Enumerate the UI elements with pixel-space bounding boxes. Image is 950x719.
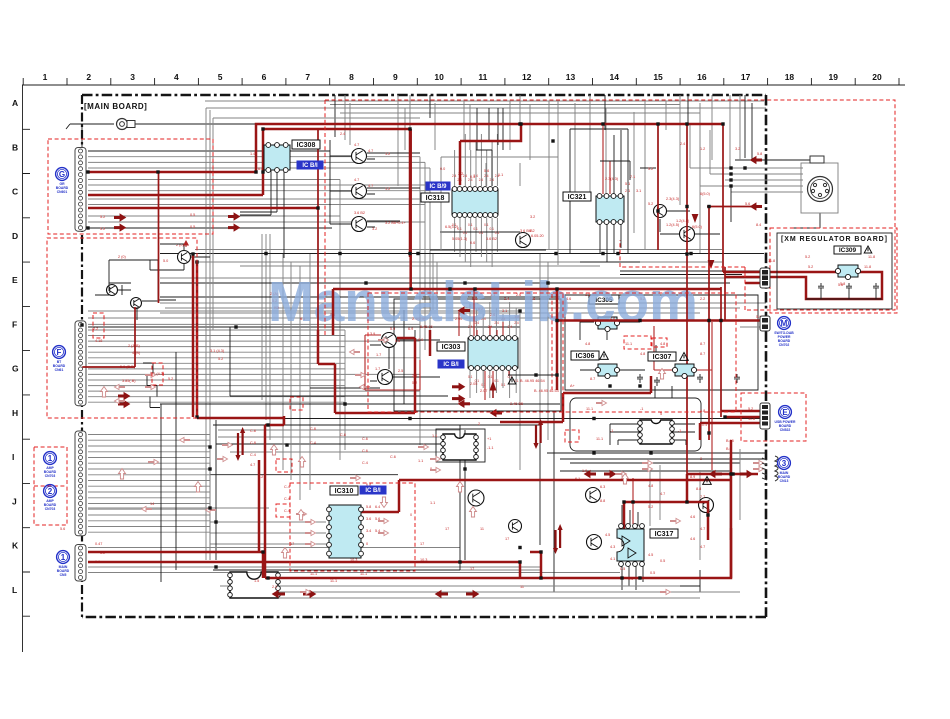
op-amp IC308 [264, 143, 290, 173]
IC321 [596, 194, 624, 225]
svg-text:J: J [12, 496, 17, 506]
svg-text:5.8: 5.8 [366, 505, 371, 509]
white DIP IC312 [638, 420, 675, 444]
svg-text:2.4: 2.4 [479, 178, 484, 182]
wire: top verticals black [335, 95, 752, 160]
svg-text:IC317: IC317 [655, 531, 674, 538]
svg-text:3: 3 [782, 459, 787, 468]
svg-text:IC308: IC308 [297, 142, 316, 149]
svg-text:1.4: 1.4 [250, 152, 255, 156]
white DIP IC313 [228, 572, 281, 598]
IC310 [327, 505, 364, 558]
svg-text:2.2: 2.2 [272, 585, 277, 589]
svg-text:3.6 B2: 3.6 B2 [354, 211, 365, 215]
red dark arrows vertical pair [235, 427, 245, 461]
svg-text:5: 5 [660, 412, 662, 416]
IC306 regulator [595, 364, 619, 379]
wire: top verticals dropping from border [345, 95, 740, 205]
wire: top inner horizontal bus [205, 101, 766, 113]
svg-text:2.4: 2.4 [680, 142, 685, 146]
grid ruler column ticks [23, 78, 899, 85]
wire: IC306 IC307 caps [637, 374, 643, 383]
svg-text:2: 2 [86, 72, 91, 82]
svg-text:16: 16 [697, 72, 707, 82]
red circuit G arrows right [228, 213, 240, 220]
svg-text:7: 7 [305, 72, 310, 82]
connector CN604 bottom strip [75, 545, 86, 582]
svg-text:5.8: 5.8 [840, 282, 845, 286]
IC317 label [650, 529, 678, 538]
connector G circled ref [56, 168, 69, 194]
svg-text:17: 17 [505, 537, 509, 541]
svg-text:2.4: 2.4 [473, 174, 478, 178]
svg-text:1.2(4.5): 1.2(4.5) [666, 223, 680, 227]
IC308 label [292, 140, 320, 149]
svg-text:2.4: 2.4 [489, 178, 494, 182]
svg-text:5.6: 5.6 [484, 169, 489, 173]
wire: long column-4 verticals [206, 108, 430, 560]
circled ref 1 amp board [44, 452, 57, 478]
svg-text:1: 1 [48, 454, 53, 463]
svg-text:B. 46.95 46.54: B. 46.95 46.54 [520, 379, 545, 383]
svg-text:B. 46.95 46.54: B. 46.95 46.54 [534, 389, 559, 393]
svg-text:5.2: 5.2 [808, 265, 813, 269]
circled ref 1 main board [57, 551, 70, 577]
power wire red: connector3 feed [687, 473, 758, 476]
svg-text:0.1: 0.1 [494, 379, 499, 383]
IC317 [617, 529, 644, 561]
wire: mid horizontal bus black [88, 254, 766, 328]
svg-text:5.2: 5.2 [648, 167, 653, 171]
svg-text:1.7: 1.7 [375, 367, 380, 371]
svg-text:5.0: 5.0 [163, 259, 168, 263]
IC318 label [421, 193, 449, 202]
svg-text:5.2: 5.2 [648, 202, 653, 206]
white DIP IC311 box [436, 429, 485, 462]
transistor Q316 [680, 227, 695, 242]
red thin vertical to IC303 [459, 289, 509, 400]
board outline dashed: G board [48, 139, 213, 234]
svg-text:4.6: 4.6 [690, 515, 695, 519]
svg-text:11: 11 [480, 527, 484, 531]
svg-text:2.4: 2.4 [340, 132, 345, 136]
red down arrows right column [692, 214, 715, 269]
svg-text:G: G [59, 170, 65, 179]
transistor Q310 [382, 333, 397, 348]
svg-text:1.2: 1.2 [700, 147, 705, 151]
power wire red: G third feed [88, 207, 318, 210]
svg-text:F: F [57, 348, 62, 357]
power wire red: IC310 area feed [197, 416, 731, 552]
IC307 label [648, 352, 676, 361]
svg-text:11.1: 11.1 [330, 579, 337, 583]
power wire red: G bus drop to F circuit [82, 172, 158, 367]
svg-text:11: 11 [520, 585, 524, 589]
svg-text:K: K [12, 541, 19, 551]
svg-text:2.4: 2.4 [452, 174, 457, 178]
transistor Q321 [178, 251, 191, 264]
red feed to IC317 pin [632, 478, 634, 524]
wire: IC308 pin wires [240, 170, 284, 258]
svg-text:C.4: C.4 [362, 461, 368, 465]
svg-text:1: 1 [61, 553, 66, 562]
svg-text:C.4: C.4 [250, 453, 256, 457]
svg-text:4.8: 4.8 [640, 352, 645, 356]
red dark vertical arrow pair near IC317 [553, 524, 563, 554]
svg-text:5.2: 5.2 [805, 255, 810, 259]
svg-text:0.6: 0.6 [470, 241, 475, 245]
svg-text:5.2: 5.2 [648, 505, 653, 509]
svg-text:-1: -1 [678, 429, 681, 433]
svg-text:CN13: CN13 [780, 479, 789, 483]
svg-text:IC318: IC318 [426, 195, 445, 202]
svg-text:0: 0 [410, 513, 412, 517]
transistor Q332 [587, 535, 602, 550]
transistor Q304 [516, 233, 531, 248]
connector M 2pin [760, 316, 770, 331]
svg-text:15: 15 [653, 72, 663, 82]
wire: XM area verticals [690, 95, 740, 186]
connector 3 circled ref [778, 457, 791, 483]
svg-text:+1: +1 [487, 437, 491, 441]
power wire red: around transistor block Q312 [318, 330, 430, 413]
svg-text:11: 11 [478, 72, 487, 82]
svg-text:4.7: 4.7 [354, 178, 359, 182]
board outline dashed: AMP board labels [34, 447, 67, 525]
svg-text:5.6: 5.6 [395, 339, 400, 343]
svg-text:[MAIN BOARD]: [MAIN BOARD] [84, 102, 147, 111]
svg-text:3.1: 3.1 [636, 189, 641, 193]
red circuit arrows F board [114, 214, 126, 221]
svg-text:4.8: 4.8 [660, 342, 665, 346]
fuse F601 [117, 119, 136, 130]
svg-text:3.2: 3.2 [735, 147, 740, 151]
svg-text:0.1: 0.1 [479, 231, 484, 235]
circled ref 2 amp board [44, 485, 57, 511]
svg-text:CN5: CN5 [60, 573, 67, 577]
svg-text:4.7: 4.7 [660, 492, 665, 496]
wire: IC321 feed stub [600, 161, 630, 180]
svg-text:2.5: 2.5 [398, 369, 403, 373]
svg-text:1: 1 [43, 72, 48, 82]
svg-text:C.8: C.8 [310, 427, 316, 431]
board outline dashed: center box [368, 293, 736, 412]
wire: mid horizontal bus across board [88, 250, 766, 319]
svg-text:4.8: 4.8 [648, 484, 653, 488]
svg-text:IC309: IC309 [839, 247, 857, 254]
wire bundle from connector G black lines [88, 140, 332, 228]
svg-text:8.9: 8.9 [690, 475, 695, 479]
wire: right top gray bus to DIN [690, 168, 803, 192]
XM regulator capacitors [818, 283, 824, 292]
svg-text:6.05.20: 6.05.20 [531, 234, 544, 238]
svg-text:8.7: 8.7 [590, 377, 595, 381]
svg-text:3.1 (4.3): 3.1 (4.3) [210, 349, 225, 353]
svg-text:2.4: 2.4 [484, 174, 489, 178]
connector E 4pin [760, 403, 770, 429]
svg-text:3.85(.B): 3.85(.B) [122, 379, 136, 383]
svg-text:1.7: 1.7 [376, 353, 381, 357]
svg-text:0.1: 0.1 [468, 223, 473, 227]
transistor Q303 [352, 217, 367, 232]
svg-text:0.5: 0.5 [190, 225, 195, 229]
svg-text:CN702: CN702 [779, 343, 790, 347]
svg-text:8.8: 8.8 [600, 499, 605, 503]
svg-text:0.1: 0.1 [468, 375, 473, 379]
svg-text:2: 2 [478, 422, 480, 426]
svg-text:0.1: 0.1 [463, 231, 468, 235]
svg-text:11.8: 11.8 [864, 265, 871, 269]
svg-text:1.2: 1.2 [385, 152, 390, 156]
power wire red: E connector feeds [700, 411, 762, 440]
main board boundary dash-dot right edge [765, 95, 768, 617]
svg-text:0.1: 0.1 [489, 227, 494, 231]
wire: IC317 pin drops [560, 505, 700, 590]
power wire red: left long verticals [193, 254, 197, 418]
svg-text:10: 10 [434, 72, 444, 82]
svg-text:11.1: 11.1 [586, 407, 593, 411]
svg-text:5.2: 5.2 [168, 377, 173, 381]
wire: transistor Q310/Q311 leads [370, 340, 440, 381]
connector E circled ref [775, 406, 796, 432]
wire: F bundle black steps [143, 363, 160, 408]
wire: D2 dip wires [610, 386, 695, 445]
svg-text:2: 2 [48, 487, 53, 496]
FET Q315 [654, 205, 667, 218]
svg-text:4.1: 4.1 [610, 557, 615, 561]
svg-text:C.6: C.6 [362, 449, 368, 453]
board outline dashed: IC310 box [290, 483, 415, 571]
svg-text:A: A [12, 98, 18, 108]
connector AMP strip CN603 [75, 431, 86, 536]
svg-text:C.8: C.8 [250, 441, 256, 445]
svg-text:4.8: 4.8 [585, 342, 590, 346]
svg-text:2.45 B5: 2.45 B5 [510, 402, 523, 406]
wire: bottom right block structure [547, 412, 766, 592]
svg-text:IC307: IC307 [653, 354, 672, 361]
grid ruler left line [22, 85, 24, 652]
dark arrow on line y310 [459, 307, 471, 314]
red arrows DIN area [751, 157, 763, 164]
power wire red: mid bus to M connector [333, 289, 762, 578]
svg-text:0.0: 0.0 [440, 167, 445, 171]
wire: bottom center structure [213, 570, 740, 598]
XM connector 3pin [760, 268, 770, 288]
svg-text:4.18: 4.18 [95, 339, 102, 343]
svg-text:17: 17 [290, 542, 294, 546]
svg-text:0.1: 0.1 [495, 231, 500, 235]
svg-text:4.7: 4.7 [700, 527, 705, 531]
wire: IC303 pin verticals [470, 302, 516, 398]
svg-text:F: F [12, 319, 17, 329]
svg-text:IC306: IC306 [576, 353, 595, 360]
wire: IC305 pins [580, 322, 640, 340]
svg-text:E: E [12, 275, 18, 285]
board outline dashed: E connector box [741, 393, 806, 441]
XM regulator board outline [777, 233, 892, 309]
board outline dashed small: misc5 pair [624, 336, 651, 349]
svg-text:CN601: CN601 [57, 190, 68, 194]
svg-text:IC B/I: IC B/I [302, 163, 318, 169]
wire: IC318 pin verticals bottom [455, 218, 498, 267]
board outline dashed small: misc6 [565, 430, 579, 442]
svg-text:C.4: C.4 [284, 485, 290, 489]
svg-text:C.6: C.6 [390, 455, 396, 459]
grid ruler row ticks [23, 85, 31, 616]
svg-text:11.1: 11.1 [596, 437, 603, 441]
board outline dashed small: misc4 [93, 313, 104, 338]
connector 3 pins [762, 456, 778, 481]
svg-text:2.3(4.3): 2.3(4.3) [605, 177, 619, 181]
svg-text:2.3(4.3): 2.3(4.3) [666, 197, 680, 201]
svg-text:7.7: 7.7 [700, 495, 705, 499]
svg-text:6(5.0): 6(5.0) [700, 192, 711, 196]
board outline dashed: XM large box [325, 100, 895, 335]
connector M circled ref [774, 317, 794, 347]
power wire red: IC317 region [624, 474, 708, 540]
IC321 label [563, 192, 591, 201]
svg-text:5.2: 5.2 [100, 215, 105, 219]
svg-text:1.1: 1.1 [432, 434, 437, 438]
IC318 blue label [426, 182, 450, 190]
connector F circled ref [53, 346, 66, 372]
power wire red arrows bottom bus [273, 591, 286, 598]
IC305 label box (under watermark) [589, 295, 619, 304]
power wire red: vertical feed to y289 bus [409, 129, 412, 289]
light vertical arrows [101, 369, 666, 559]
svg-text:3.2: 3.2 [530, 215, 535, 219]
svg-text:2.2: 2.2 [93, 327, 98, 331]
transistor Q334 [509, 520, 522, 533]
svg-text:IC303: IC303 [442, 344, 461, 351]
svg-text:-1.1: -1.1 [487, 446, 494, 450]
IC306 warning [600, 352, 609, 360]
IC310 blue label [360, 486, 386, 494]
svg-text:E: E [782, 408, 788, 417]
svg-text:4.7: 4.7 [368, 184, 373, 188]
IC303 label [437, 342, 465, 351]
svg-text:M: M [781, 319, 788, 328]
transistor Q312 [468, 490, 484, 506]
wire: center vertical structure lines [283, 254, 548, 500]
svg-text:1.1: 1.1 [430, 501, 435, 505]
svg-text:5.1: 5.1 [625, 182, 630, 186]
wire: IC318 gray frame [441, 157, 558, 265]
svg-text:17: 17 [470, 567, 474, 571]
power wire red: right column verticals [687, 124, 725, 474]
wire: transistor column Q301-303 wires [330, 153, 420, 227]
power wire red: XM regulator internal [766, 272, 882, 299]
wire: left vertical structure lines [161, 327, 230, 582]
IC308 blue label [297, 161, 323, 169]
svg-text:0.1: 0.1 [488, 375, 493, 379]
svg-text:C.8: C.8 [250, 429, 256, 433]
svg-text:L: L [12, 585, 17, 595]
IC310 label [330, 486, 358, 495]
svg-text:CN522: CN522 [780, 428, 791, 432]
svg-text:2.2: 2.2 [700, 297, 705, 301]
svg-text:0.1: 0.1 [473, 227, 478, 231]
svg-text:4.3: 4.3 [610, 545, 615, 549]
red circuit around Q310 Q311 [365, 335, 420, 390]
svg-text:B: B [12, 142, 18, 152]
svg-text:3: 3 [130, 72, 135, 82]
wire: IC318 surrounding box [430, 108, 546, 250]
svg-text:5.8: 5.8 [757, 152, 762, 156]
svg-text:IC310: IC310 [335, 488, 354, 495]
svg-text:6.4: 6.4 [375, 505, 380, 509]
svg-text:C.4: C.4 [284, 497, 290, 501]
dark arrows under IC303 [452, 383, 465, 390]
IC303 [468, 336, 518, 371]
power wire red: XM regulator connector feed [723, 272, 762, 283]
svg-text:12: 12 [522, 72, 532, 82]
svg-text:2.4: 2.4 [495, 174, 500, 178]
svg-text:CN61: CN61 [55, 368, 64, 372]
svg-text:13: 13 [566, 72, 576, 82]
red up arrow near Q321 [184, 241, 188, 247]
IC306 label [571, 351, 599, 360]
IC318 [452, 187, 498, 218]
transistor Q302 [352, 184, 367, 199]
red dark arrows vertical pair right [533, 419, 543, 449]
svg-text:20: 20 [872, 72, 882, 82]
svg-text:3.2: 3.2 [372, 227, 377, 231]
transistor Q301 [352, 149, 367, 164]
svg-text:C.4: C.4 [284, 509, 290, 513]
svg-text:2.4: 2.4 [468, 178, 473, 182]
main board boundary dash-dot left edge [81, 95, 83, 617]
svg-text:C.6: C.6 [362, 437, 368, 441]
svg-text:8: 8 [349, 72, 354, 82]
IC309 label [834, 246, 861, 254]
svg-text:5: 5 [218, 72, 223, 82]
power wire red: bottom long bus [88, 425, 731, 578]
svg-text:0.5: 0.5 [620, 567, 625, 571]
svg-text:6.3: 6.3 [600, 485, 605, 489]
svg-text:4.6: 4.6 [690, 537, 695, 541]
svg-text:0.47: 0.47 [95, 542, 102, 546]
svg-text:17: 17 [741, 72, 751, 82]
svg-text:0.1: 0.1 [484, 223, 489, 227]
svg-text:4.5: 4.5 [648, 553, 653, 557]
main board boundary dash-dot bottom edge [82, 616, 766, 619]
svg-text:2.1: 2.1 [625, 189, 630, 193]
wire: below IC303 horizontals [160, 388, 764, 419]
wire: M connector stubs [740, 320, 762, 327]
wire: amp bundle continuing lines [88, 430, 460, 544]
transistor Q333 [699, 498, 714, 513]
DIN jack gray housing [801, 163, 838, 213]
svg-text:C: C [12, 187, 18, 197]
svg-text:1.1: 1.1 [418, 459, 423, 463]
svg-text:[XM REGULATOR BOARD]: [XM REGULATOR BOARD] [781, 236, 887, 243]
svg-text:11.1: 11.1 [625, 342, 632, 346]
grid ruler top line [22, 84, 905, 86]
board outline dashed small: misc1 [290, 397, 303, 410]
svg-text:17: 17 [420, 542, 424, 546]
svg-text:CN703: CN703 [45, 507, 56, 511]
wire: rounded box around IC312 [570, 398, 701, 451]
svg-text:6(5.0): 6(5.0) [692, 225, 703, 229]
svg-text:5.6: 5.6 [745, 202, 750, 206]
white DIP IC311 [441, 434, 479, 460]
wire: FET Q315 and Q316 area [640, 168, 720, 258]
warning triangle near connector 3 [703, 477, 712, 485]
svg-text:3.4: 3.4 [366, 529, 371, 533]
power wire red: G to IC318 top bus [88, 124, 723, 257]
svg-text:9: 9 [393, 72, 398, 82]
